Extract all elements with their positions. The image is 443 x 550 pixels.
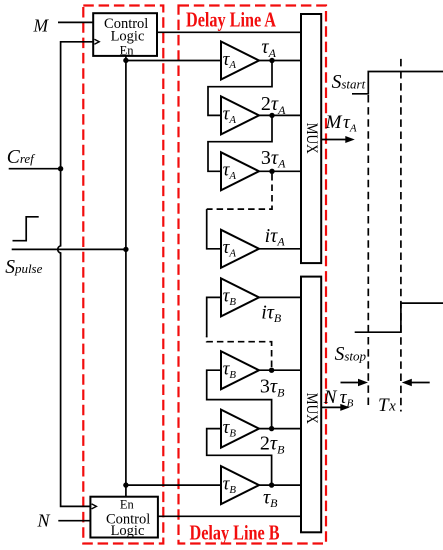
- wire routing 2A to 3A: [208, 115, 272, 171]
- wire C_ref input: [9, 168, 61, 170]
- wire clock input left vertical with hop over S_pulse: [58, 42, 93, 507]
- svg-text:τB: τB: [263, 486, 278, 510]
- wire routing into iB: [207, 297, 221, 337]
- node tau_A: [269, 58, 274, 63]
- svg-text:Logic: Logic: [111, 523, 145, 539]
- control logic A box U1: [93, 13, 157, 56]
- wire buffer3B output: [259, 369, 302, 371]
- wire buffer2A output: [259, 114, 302, 116]
- wire dashed routing 3A to iA: [207, 174, 272, 209]
- wire routing into iA: [207, 209, 221, 249]
- pulse symbol: [13, 217, 39, 241]
- buffer tau_B 2: [221, 410, 259, 448]
- node 3tau_A: [269, 169, 274, 174]
- node tau_B: [269, 482, 274, 487]
- wire routing 1A to 2A: [208, 61, 272, 116]
- svg-text:3τA: 3τA: [261, 147, 286, 171]
- buffer tau_A 2: [221, 96, 259, 134]
- wire En vertical: [125, 56, 127, 497]
- node C_ref junction: [58, 166, 63, 171]
- wire buffer1A input: [126, 60, 221, 62]
- node En A: [123, 58, 128, 63]
- node En B: [123, 482, 128, 487]
- svg-text:2τA: 2τA: [261, 93, 286, 117]
- dashed marker line t2: [400, 59, 402, 412]
- arrow Tx left: [341, 382, 361, 384]
- svg-text:N: N: [37, 511, 51, 531]
- mux A box: [301, 14, 321, 263]
- svg-text:MUX: MUX: [303, 123, 320, 154]
- dashed region Delay Lines block: [179, 6, 327, 544]
- wire dashed routing 3B to iB: [207, 336, 272, 367]
- wire select B to MUX: [158, 515, 302, 517]
- svg-text:Delay Line A: Delay Line A: [186, 7, 277, 31]
- clock marker control logic B: [92, 504, 97, 509]
- waveform S_start: [352, 72, 443, 94]
- buffer tau_A i: [221, 230, 259, 268]
- waveform S_stop: [355, 303, 443, 332]
- node S_pulse junction: [123, 247, 128, 252]
- arrow Ntau_B output: [321, 406, 341, 408]
- wire bufferiA output: [259, 248, 302, 250]
- svg-text:τB: τB: [340, 387, 354, 409]
- svg-text:2τB: 2τB: [260, 433, 285, 457]
- node 2tau_A: [269, 113, 274, 118]
- wire buffer1A output: [259, 60, 302, 62]
- buffer tau_A 1: [221, 42, 259, 80]
- svg-text:iτA: iτA: [265, 225, 286, 249]
- svg-text:τA: τA: [343, 112, 357, 134]
- wire select A to MUX: [157, 31, 302, 33]
- buffer tau_A 3: [221, 152, 259, 190]
- wire M input: [58, 21, 93, 23]
- wire N input: [58, 520, 90, 522]
- svg-text:Delay Line B: Delay Line B: [190, 520, 280, 544]
- dashed marker line t1: [367, 95, 369, 405]
- arrow Mtau_A output: [321, 139, 346, 141]
- wire buffer1B output: [259, 484, 302, 486]
- wire bufferiB output: [259, 296, 302, 298]
- svg-text:N: N: [323, 387, 338, 408]
- wire buffer3A output: [259, 170, 302, 172]
- svg-text:Tx: Tx: [378, 395, 396, 416]
- wire buffer1B input: [126, 484, 221, 486]
- svg-text:Spulse: Spulse: [5, 257, 42, 278]
- control logic B box U2: [90, 497, 157, 538]
- svg-text:M: M: [325, 112, 343, 133]
- node 3tau_B: [269, 368, 274, 373]
- wire routing 1B to 2B: [207, 429, 272, 486]
- svg-text:MUX: MUX: [303, 393, 320, 424]
- svg-text:3τB: 3τB: [260, 376, 285, 400]
- buffer tau_B i: [221, 278, 259, 316]
- buffer tau_B 3: [221, 351, 259, 389]
- svg-text:En: En: [120, 44, 135, 58]
- arrow Tx right: [410, 382, 430, 384]
- wire buffer2B output: [259, 428, 302, 430]
- svg-text:Logic: Logic: [111, 28, 145, 44]
- dashed region Control Logic block: [83, 6, 163, 544]
- buffer tau_B 1: [221, 466, 259, 504]
- svg-text:En: En: [120, 498, 135, 512]
- svg-text:τA: τA: [261, 36, 276, 60]
- svg-text:Cref: Cref: [7, 147, 36, 168]
- svg-text:iτB: iτB: [261, 301, 282, 325]
- wire S_pulse input: [12, 248, 126, 250]
- mux B box: [301, 277, 321, 533]
- node 2tau_B: [269, 426, 274, 431]
- clock marker control logic A: [94, 39, 99, 44]
- svg-text:Sstart: Sstart: [332, 72, 366, 93]
- svg-text:M: M: [33, 16, 50, 36]
- svg-text:Sstop: Sstop: [335, 344, 367, 365]
- wire routing 2B to 3B: [207, 370, 272, 428]
